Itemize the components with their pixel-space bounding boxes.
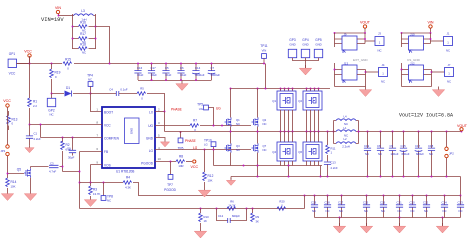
svg-text:NC: NC [236,148,240,152]
svg-text:R14: R14 [11,180,17,184]
resistor R10 1K [194,208,209,238]
svg-text:J13: J13 [344,62,349,66]
power port VCC left [3,99,11,145]
testpoint TP11 VIN [260,44,268,64]
svg-text:1K: 1K [204,219,208,223]
svg-text:C19: C19 [364,144,370,148]
svg-text:C17: C17 [151,66,157,70]
resistor R9 3K [251,208,260,224]
svg-text:PHASE: PHASE [185,139,196,143]
svg-text:C26: C26 [380,201,386,205]
capacitor C15 680uF (output) [400,132,410,177]
power port VIN right [428,21,434,34]
node D1-GP2 junction [51,93,53,95]
capacitor C2 30pF [67,138,76,160]
wire gnd-to-sense right vertical [460,177,462,196]
svg-text:NC: NC [365,152,369,156]
wire L3 left bus [72,14,74,49]
svg-text:13.7K: 13.7K [93,192,100,196]
svg-text:C8: C8 [377,144,381,148]
svg-text:NC: NC [339,209,343,213]
svg-text:VCC: VCC [9,72,16,76]
testpoint GP3 GND [288,38,305,61]
svg-text:0.1uF: 0.1uF [120,88,127,92]
power port VIN [55,6,61,16]
wire VIN to L3 network [59,15,73,17]
node FB junctions [79,171,81,173]
svg-text:R7: R7 [193,119,197,123]
svg-text:2.2nF: 2.2nF [331,166,338,170]
svg-text:GND: GND [146,137,154,141]
ground GP3-GP5 [299,61,311,76]
transistor Q3 low-side discrete [225,132,241,166]
diode D1 [52,86,91,97]
svg-text:R12: R12 [208,174,214,178]
svg-text:10: 10 [158,157,162,161]
svg-text:GND: GND [289,43,295,47]
wire VOS pin9 [91,165,103,183]
svg-text:J10: J10 [410,33,415,37]
svg-text:GP5: GP5 [315,38,322,42]
connector J4 NC [379,63,388,84]
svg-text:PGOOD: PGOOD [141,162,154,166]
power port VCC top [24,50,32,64]
svg-text:R16: R16 [80,21,86,25]
wire L3 right bus [95,14,97,49]
svg-text:C15: C15 [401,144,407,148]
capacitor C6 10uF [177,64,186,81]
svg-text:LG: LG [204,143,208,147]
svg-text:C3: C3 [50,162,54,166]
svg-text:C23: C23 [458,201,464,205]
wire drain bus [231,88,331,90]
inductor L1 NC [334,126,359,138]
svg-text:GND: GND [315,43,321,47]
svg-text:L4: L4 [343,115,347,119]
svg-text:Q6: Q6 [298,150,302,154]
svg-text:C2: C2 [67,147,71,151]
connector J9 vout sense [334,32,375,53]
svg-text:NC: NC [378,152,382,156]
svg-text:J1: J1 [447,32,450,36]
svg-text:NC: NC [381,209,385,213]
wire VIN net to bus [96,27,110,64]
jumper JP2 [445,132,454,177]
svg-text:NC: NC [263,122,267,126]
node pgnd junctions [257,165,259,167]
node sense junction [304,195,306,197]
wire VCC pin8 [30,124,103,126]
svg-text:R9: R9 [256,215,260,219]
svg-text:Q5: Q5 [17,168,21,172]
connector J7 NC [445,63,454,84]
ground J12 [432,87,444,97]
svg-text:10uF: 10uF [137,73,144,77]
transistor Q7 low-side discrete [252,132,267,166]
resistor R4 4.3K [123,176,305,196]
connector J3 NC [375,32,384,53]
svg-text:NC: NC [398,209,402,213]
capacitor C4 0.1uF (bootstrap) [91,88,138,97]
connector J10 vin sense [401,32,444,53]
svg-text:LG: LG [193,146,198,150]
capacitor C23 NC [457,195,464,218]
resistor R16 NC [73,21,96,33]
wire FB pin6 [80,151,103,153]
svg-text:FB: FB [104,150,108,154]
wire GND pin5 [155,138,170,147]
svg-text:NC: NC [377,49,381,53]
svg-text:3K: 3K [256,220,260,224]
ground input caps [176,81,188,91]
wire VCC vertical rail [29,56,31,125]
power port VCC pgood [191,160,199,169]
connector J13 ext gnd sense [334,62,379,87]
svg-text:Q1: Q1 [272,99,276,103]
node LX junction [164,111,166,113]
node bus junctions [29,63,31,65]
node R3 junction [90,182,92,184]
capacitor C8 NC (output) [377,132,384,177]
svg-text:C18: C18 [428,144,434,148]
svg-text:NC: NC [459,209,463,213]
svg-text:R5: R5 [140,87,144,91]
svg-text:NC: NC [88,78,92,82]
testpoint GP4 GND [301,38,309,61]
resistor R19 0 [50,64,61,94]
capacitor C16 10uF [134,64,143,81]
wire VCC/VIN horizontal bus [17,63,266,65]
node phase bus junctions [230,131,232,133]
ground main left arrow [226,165,244,186]
svg-text:2.2: 2.2 [33,104,37,108]
transistor Q4 module [272,132,296,166]
svg-text:TP7: TP7 [167,183,173,187]
svg-text:R19: R19 [55,71,61,75]
svg-text:C21: C21 [397,201,403,205]
svg-text:C4: C4 [109,88,113,92]
capacitor C17 10uF [148,64,157,81]
svg-text:680uF: 680uF [416,152,424,156]
capacitor C22 NC [423,195,430,218]
svg-text:30pF: 30pF [68,156,75,160]
inductor L3 1uH [73,9,96,22]
capacitor C19 NC (output) [364,132,371,177]
wire main ground bus [231,176,461,178]
wire PGOOD pin10 [155,161,176,163]
svg-text:VIN=19V: VIN=19V [41,17,64,23]
capacitor C28 NC [324,195,331,218]
capacitor C12 820pF [216,208,248,223]
svg-text:TP5: TP5 [197,103,203,107]
node VCC pin junction [29,124,31,126]
svg-text:PGOOD: PGOOD [164,188,177,192]
power port VOUT top [360,21,371,34]
svg-text:C27: C27 [338,201,344,205]
svg-text:NC: NC [107,199,111,203]
svg-text:VCC: VCC [104,124,111,128]
svg-text:NC: NC [424,209,428,213]
wire pgnd stitches [258,166,321,177]
svg-text:L3: L3 [81,9,85,13]
capacitor C14 1000uF [192,64,205,81]
svg-text:10uF: 10uF [180,73,187,77]
svg-text:R8: R8 [179,155,183,159]
resistor R20 0 [277,200,286,211]
testpoint GP5 GND [306,38,323,61]
svg-text:VOS: VOS [104,164,111,168]
svg-text:J3: J3 [378,32,381,36]
svg-text:10K: 10K [11,185,16,189]
transistor Q1 high-side discrete [225,89,241,132]
svg-text:C5: C5 [165,66,169,70]
resistor R11 1 [326,132,336,162]
node cap bottom junctions [151,79,153,81]
wire sense bus (FB) [305,195,461,197]
node vout bus junctions [358,131,360,133]
svg-text:1000uF: 1000uF [195,73,205,77]
svg-text:4.7nF: 4.7nF [49,170,56,174]
svg-text:4.3K: 4.3K [125,186,131,190]
pin numbers U1 [96,108,161,165]
svg-text:C1: C1 [34,132,38,136]
resistor R18 NC [73,43,96,55]
svg-text:C17: C17 [415,144,421,148]
svg-text:D1: D1 [66,86,70,90]
capacitor C21 NC [396,195,403,218]
svg-text:Vout=12V Iout=6.8A: Vout=12V Iout=6.8A [399,113,453,119]
svg-text:C25: C25 [363,201,369,205]
svg-text:10uF: 10uF [151,73,158,77]
svg-text:J12: J12 [410,62,415,66]
node drain bus junctions [230,88,232,90]
node EN junction [40,124,42,126]
testpoint GP1 VCC [8,52,29,76]
node VIN junction [58,15,60,17]
svg-text:VIN: VIN [428,21,434,25]
svg-text:C20: C20 [410,201,416,205]
svg-text:L1: L1 [343,126,347,130]
svg-text:JP2: JP2 [449,152,454,156]
wire FB vertical [79,152,81,209]
svg-text:UG: UG [199,107,203,111]
wire comp bottom chain [80,196,305,209]
svg-text:VIN: VIN [262,49,267,53]
testpoint TP5 UG [197,103,223,127]
svg-text:U1 RT8120B: U1 RT8120B [116,170,134,174]
svg-text:NC: NC [49,113,53,117]
capacitor C5 10uF [162,64,171,81]
svg-text:C6: C6 [180,66,184,70]
svg-text:VIN: VIN [55,6,61,10]
svg-text:NC: NC [446,49,450,53]
capacitor C27 NC [338,195,345,218]
svg-text:GP4: GP4 [302,38,309,42]
testpoint TP10 LG [204,139,216,166]
svg-text:GP1: GP1 [9,52,16,56]
svg-text:UG: UG [148,124,153,128]
wire PHASE bus [165,131,334,133]
svg-text:GP3: GP3 [289,38,296,42]
capacitor C25 NC [363,195,370,218]
capacitor C9 NC (output) [389,132,399,177]
capacitor C17 680uF (output) [415,132,425,177]
svg-text:GND: GND [302,43,308,47]
node junctions L3 network [72,26,74,28]
resistor R14 10K [1,178,16,201]
node cap top junctions [137,63,139,65]
capacitor C18 NC (output) [428,132,435,177]
wire ground bus mid [214,165,323,167]
resistor R7 0 [190,119,251,133]
svg-text:R1: R1 [33,100,37,104]
svg-text:VCC: VCC [191,165,199,169]
svg-text:C14: C14 [195,66,201,70]
svg-text:COMP/EN: COMP/EN [104,137,120,141]
svg-text:NC: NC [411,209,415,213]
resistor R1 2.2 [28,98,38,108]
svg-text:C24: C24 [442,201,448,205]
wire BOOT to IC [91,94,103,112]
svg-text:Q2: Q2 [298,99,302,103]
resistor R6 14.3K [227,200,236,211]
testpoint TP6 PHASE [178,131,196,150]
svg-text:NC: NC [312,209,316,213]
resistor R13 0 [7,111,18,130]
svg-text:J4: J4 [382,63,385,67]
resistor R3 13.7K [84,183,100,207]
wire input cap ground bus [138,80,212,82]
svg-text:10uF: 10uF [165,73,172,77]
svg-text:C28: C28 [325,201,331,205]
resistor R5 0 [137,87,165,112]
power port VOUT right [457,124,468,132]
resistor R8 10R [176,155,192,169]
svg-text:C13: C13 [331,161,337,165]
wire VOUT bus [359,131,462,133]
svg-text:NC: NC [443,209,447,213]
svg-text:10K: 10K [208,179,213,183]
svg-text:R3: R3 [93,188,97,192]
svg-text:820pF: 820pF [232,214,240,218]
svg-text:10R: 10R [178,164,183,168]
svg-text:680uF: 680uF [402,152,410,156]
svg-text:C7: C7 [211,66,215,70]
testpoint TP4 NC [87,74,93,94]
svg-text:NC: NC [236,122,240,126]
svg-text:14.3K: 14.3K [228,204,235,208]
wire LG pin4 [155,149,251,151]
wire LX pin2 PHASE [155,111,165,113]
svg-text:2.2uH: 2.2uH [342,145,349,149]
svg-text:C16: C16 [137,66,143,70]
resistor R2 6.2K [61,138,80,172]
svg-text:EXT_GND: EXT_GND [353,58,368,62]
capacitor C29 NC [311,195,318,218]
inductor network left bus [333,121,335,144]
connector J1 NC [444,32,453,53]
capacitor C20 NC [409,195,416,218]
svg-text:VOUT: VOUT [360,21,371,25]
capacitor C3 4.7nF [31,162,64,174]
wire COMP/EN pin7 [41,125,103,138]
svg-text:J7: J7 [448,63,451,67]
svg-text:R15: R15 [65,58,71,62]
inductor L2 2.2uH [334,137,359,149]
svg-text:PHASE: PHASE [171,108,182,112]
resistor R12 10K [198,149,213,197]
svg-text:R17: R17 [80,32,86,36]
svg-text:NC: NC [263,148,267,152]
wire sense gnd bus [315,217,461,219]
inductor network right bus [358,121,360,144]
svg-text:R18: R18 [80,43,86,47]
svg-text:NC: NC [326,209,330,213]
capacitor C26 NC [380,195,387,218]
capacitor C7 1000uF [208,64,221,81]
svg-text:C29: C29 [311,201,317,205]
jumper JP1 [1,145,10,178]
svg-text:UG: UG [216,107,221,111]
svg-text:BOOT: BOOT [104,111,113,115]
svg-text:C22: C22 [423,201,429,205]
svg-text:LG: LG [149,149,154,153]
transistor Q2 high-side discrete [252,89,267,132]
resistor R17 NC [73,32,96,44]
node gnd bus junctions [367,176,369,178]
svg-text:JP1: JP1 [1,149,6,153]
node BOOT junction [90,93,92,95]
testpoint TP8 NC [101,182,113,203]
svg-text:2.2uF: 2.2uF [34,137,41,141]
svg-text:NC: NC [447,80,451,84]
svg-text:R4: R4 [126,176,130,180]
capacitor C13 2.2nF [324,161,338,178]
testpoint TP7 PGOOD [164,161,177,192]
svg-text:NC: NC [82,51,86,55]
svg-text:C12: C12 [218,214,224,218]
transistor Q5 [7,167,37,201]
svg-text:NC: NC [381,80,385,84]
wire UG pin3 [155,125,190,127]
wire PHASE vertical [164,112,166,132]
connector J12 cs gnd sense [401,62,445,87]
svg-text:TP11: TP11 [260,44,268,48]
svg-text:GND: GND [130,128,134,134]
transistor Q2 module [298,89,322,133]
svg-text:VCC: VCC [24,50,32,54]
svg-text:J9: J9 [344,33,347,37]
svg-text:C9: C9 [390,144,394,148]
testpoint GP2 NC [47,94,55,117]
svg-text:1000uF: 1000uF [211,73,221,77]
svg-text:L2: L2 [343,137,347,141]
capacitor C1 2.2uF [25,125,41,153]
svg-text:NC: NC [364,209,368,213]
transistor Q6 module [298,132,322,166]
svg-text:NC: NC [429,152,433,156]
wire FB divider horizontal [80,182,124,184]
svg-text:VCC: VCC [3,99,11,103]
resistor R15 0 [63,58,72,71]
ground sense arrows [333,217,345,233]
svg-text:100uF: 100uF [391,152,399,156]
inductor L4 NC [334,115,359,127]
wire VIN to drain bus [265,64,267,89]
svg-text:Q4: Q4 [272,150,276,154]
capacitor C24 NC [441,195,448,218]
transistor Q1 module [272,89,296,133]
